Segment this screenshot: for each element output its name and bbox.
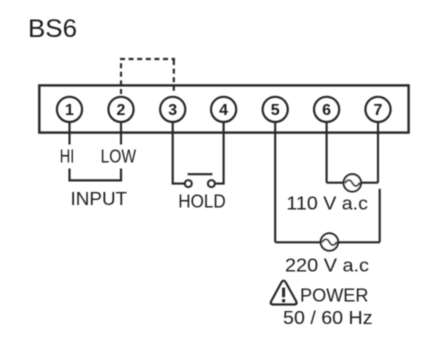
svg-text:220 V a.c: 220 V a.c: [285, 256, 369, 276]
input bracket: [70, 169, 122, 181]
svg-text:5: 5: [271, 102, 280, 119]
svg-text:4: 4: [219, 102, 228, 119]
wire terminal 7 down: [377, 122, 379, 183]
wire 110V horizontal: [327, 182, 378, 184]
wire 220V right riser: [379, 189, 381, 243]
wire terminal 6 down: [326, 122, 328, 183]
terminal 7: [365, 97, 390, 122]
svg-text:110 V a.c: 110 V a.c: [286, 194, 368, 214]
ac source 110V: [344, 174, 361, 191]
wire terminal 3 to switch: [173, 122, 185, 184]
svg-text:50 / 60 Hz: 50 / 60 Hz: [283, 307, 373, 328]
ac source 220V: [321, 233, 338, 250]
terminal block: [39, 85, 408, 132]
svg-text:INPUT: INPUT: [71, 188, 128, 209]
switch HOLD contact right: [208, 180, 215, 187]
jumper link (dashed) terminal 2 to 3: [120, 59, 175, 94]
wire terminal 2 stub (LOW): [120, 122, 122, 145]
svg-text:HI: HI: [60, 147, 75, 167]
wire terminal 1 stub (HI): [68, 122, 70, 145]
wire terminal 5 down: [274, 122, 276, 242]
svg-text:7: 7: [374, 102, 383, 119]
svg-text:BS6: BS6: [28, 15, 77, 43]
warning triangle: [271, 281, 297, 305]
svg-text:HOLD: HOLD: [178, 191, 226, 212]
terminal 5: [263, 97, 288, 122]
terminal 3: [160, 97, 185, 122]
svg-text:2: 2: [117, 102, 126, 119]
svg-text:POWER: POWER: [300, 285, 369, 306]
svg-text:1: 1: [65, 102, 74, 119]
svg-text:6: 6: [322, 102, 331, 119]
svg-text:LOW: LOW: [101, 147, 137, 167]
terminal 6: [314, 97, 339, 122]
svg-text:3: 3: [168, 102, 177, 119]
wire switch to terminal 4: [215, 122, 224, 184]
switch HOLD lever: [188, 173, 213, 175]
terminal 2: [108, 97, 133, 122]
terminal 1: [57, 97, 82, 122]
switch HOLD contact left: [185, 180, 192, 187]
terminal 4: [211, 97, 236, 122]
wire 220V horizontal: [275, 241, 380, 243]
